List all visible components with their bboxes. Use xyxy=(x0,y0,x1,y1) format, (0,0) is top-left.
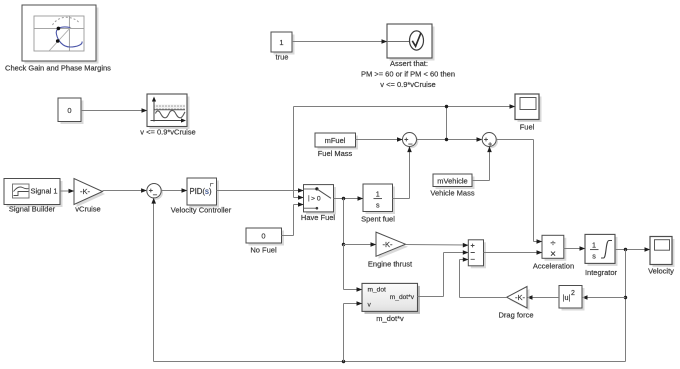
wire Spent fuel to sum xyxy=(393,146,412,198)
svg-text:m_dot*v: m_dot*v xyxy=(376,314,404,323)
svg-text:Fuel: Fuel xyxy=(520,123,535,132)
gain vCruise xyxy=(74,179,105,214)
svg-text:No Fuel: No Fuel xyxy=(250,246,277,255)
wire Engine thrust to sum xyxy=(406,243,469,248)
svg-text:true: true xyxy=(276,53,289,62)
wire m_dot*v output to sum xyxy=(418,250,469,296)
wire vCruise to sum xyxy=(103,188,147,193)
wire total mass to product xyxy=(496,140,542,244)
integrator Spent fuel xyxy=(361,184,395,224)
wire Signal Builder to vCruise xyxy=(60,189,74,194)
svg-text:PM >= 60 or if PM < 60 then: PM >= 60 or if PM < 60 then xyxy=(361,70,455,79)
svg-text:-K-: -K- xyxy=(383,240,394,249)
svg-text:m_dot: m_dot xyxy=(368,287,386,294)
svg-text:1: 1 xyxy=(592,241,596,250)
switch Have Fuel xyxy=(301,185,336,222)
PID controller block xyxy=(171,178,232,215)
svg-text:Spent fuel: Spent fuel xyxy=(361,215,395,224)
sum fuel remaining (+ -) xyxy=(403,133,419,149)
wire fuel remaining net xyxy=(294,104,516,200)
svg-text:1: 1 xyxy=(279,38,283,47)
wire mVehicle to sum xyxy=(472,146,492,180)
wire sum to PID xyxy=(161,188,187,193)
wire switch output xyxy=(334,196,364,201)
svg-text:v <= 0.9*vCruise: v <= 0.9*vCruise xyxy=(380,80,435,89)
wire mFuel to sum xyxy=(356,137,403,142)
svg-text:Engine thrust: Engine thrust xyxy=(368,260,413,269)
integrator (limited) xyxy=(585,234,618,277)
constant mFuel xyxy=(315,133,358,158)
gain Engine thrust xyxy=(368,232,413,268)
svg-text:mVehicle: mVehicle xyxy=(437,176,467,185)
block Check Gain and Phase Margins xyxy=(5,5,111,73)
wire |u|2 to Drag force xyxy=(527,295,559,300)
svg-text:m_dot*v: m_dot*v xyxy=(390,294,415,301)
wire Drag force to sum xyxy=(460,257,507,297)
constant block 1 (true) xyxy=(271,32,295,62)
svg-text:s: s xyxy=(592,252,596,261)
svg-text:0: 0 xyxy=(67,106,71,115)
svg-text:Fuel Mass: Fuel Mass xyxy=(318,149,353,158)
svg-text:Velocity Controller: Velocity Controller xyxy=(171,206,232,215)
svg-text:v <= 0.9*vCruise: v <= 0.9*vCruise xyxy=(140,128,195,137)
wire true to assert xyxy=(292,39,387,44)
scope Velocity xyxy=(648,237,674,276)
math function |u|^2 xyxy=(559,286,585,311)
svg-text:> 0: > 0 xyxy=(311,196,321,203)
wire No Fuel to switch input 3 xyxy=(282,202,304,235)
svg-text:×: × xyxy=(550,249,556,260)
gain Drag force (left pointing) xyxy=(498,287,533,320)
svg-text:2: 2 xyxy=(571,290,575,297)
svg-text:0: 0 xyxy=(261,231,265,240)
svg-text:PID(s): PID(s) xyxy=(189,187,212,196)
constant mVehicle xyxy=(430,174,474,197)
svg-text:s: s xyxy=(376,201,380,210)
svg-text:Velocity: Velocity xyxy=(648,267,674,276)
sum vehicle+fuel mass (+ +) xyxy=(482,133,498,149)
svg-text:Integrator: Integrator xyxy=(585,268,618,277)
wire Integrator to Velocity scope xyxy=(615,247,650,252)
wire velocity to |u|2 xyxy=(582,295,626,300)
wire velocity feedback vertical xyxy=(624,250,627,362)
product Acceleration xyxy=(533,235,574,270)
sum junction (velocity error) xyxy=(147,184,163,200)
svg-text:|u|: |u| xyxy=(563,293,571,302)
constant block 0 (top left) xyxy=(58,98,84,124)
svg-text:-K-: -K- xyxy=(80,187,91,196)
svg-text:Vehicle Mass: Vehicle Mass xyxy=(430,188,474,197)
wire Acceleration to Integrator xyxy=(564,246,585,251)
constant 0 No Fuel xyxy=(246,228,284,255)
wire net force to product xyxy=(484,250,543,255)
svg-text:Acceleration: Acceleration xyxy=(533,262,574,271)
scope Fuel xyxy=(515,94,542,132)
svg-text:mFuel: mFuel xyxy=(325,136,346,145)
svg-text:Check Gain and Phase Margins: Check Gain and Phase Margins xyxy=(5,64,111,73)
wire v branch to m_dot*v xyxy=(344,301,363,361)
svg-text:Assert that:: Assert that: xyxy=(390,59,428,68)
svg-text:Drag force: Drag force xyxy=(498,311,533,320)
sum of forces (+ - -) xyxy=(468,240,486,268)
wire 0 to assertion scope xyxy=(81,108,147,113)
scope block v <= 0.9*vCruise xyxy=(140,94,195,137)
assertion block U1 xyxy=(361,24,455,89)
svg-text:vCruise: vCruise xyxy=(75,205,100,214)
svg-text:Signal Builder: Signal Builder xyxy=(9,205,56,214)
svg-text:÷: ÷ xyxy=(550,238,555,249)
svg-text:1: 1 xyxy=(376,190,380,199)
svg-text:Have Fuel: Have Fuel xyxy=(301,213,336,222)
svg-text:Signal 1: Signal 1 xyxy=(30,187,57,196)
Signal Builder block xyxy=(4,179,63,214)
wire bottom feedback xyxy=(151,198,625,363)
wire PID to switch input 1 xyxy=(217,188,304,193)
wire fuel flow branch down xyxy=(342,199,376,292)
svg-text:-K-: -K- xyxy=(515,293,526,302)
subsystem m_dot*v xyxy=(362,283,420,323)
